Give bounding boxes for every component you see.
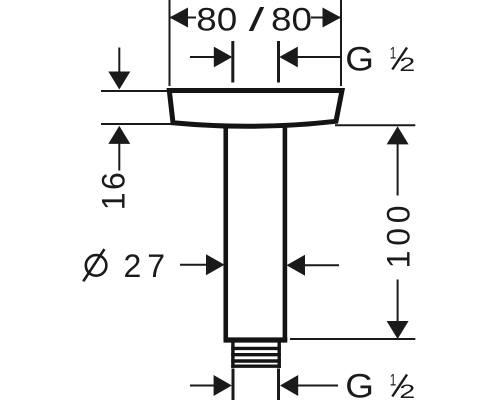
svg-text:100: 100 (380, 201, 416, 269)
dimension line left stub 80/80 (170, 17, 197, 19)
extension line left of 80/80 dimension (169, 0, 171, 86)
diameter label Ø 27 (83, 249, 106, 281)
ceiling reference line upper left (101, 90, 170, 92)
svg-text:1: 1 (390, 371, 397, 390)
pipe wall right (283, 127, 288, 341)
escutcheon plate outline (169, 91, 342, 127)
leader line left (top G 1/2) (190, 56, 215, 58)
svg-text:80: 80 (271, 2, 312, 38)
thread ridge line 1 (231, 347, 281, 350)
arrowhead pointing left (top G 1/2) (279, 47, 298, 68)
thread label top G 1/2 (345, 41, 415, 79)
pipe wall left (223, 127, 228, 341)
thread extension tick right (top G 1/2) (277, 41, 280, 83)
thread ridge line 2 (231, 353, 281, 356)
svg-text:2: 2 (399, 55, 415, 76)
extension line top of 100 dimension (335, 124, 415, 126)
100 dimension arrowhead pointing down (387, 321, 409, 339)
arrowhead pointing right (bottom G 1/2) (214, 375, 232, 396)
extension line right of 80/80 dimension (340, 0, 342, 86)
arrowhead pointing left (bottom G 1/2) (280, 375, 298, 396)
thread block bottom border (231, 365, 281, 368)
arrowhead right 80/80 (323, 8, 342, 28)
svg-text:80: 80 (196, 2, 237, 38)
arrowhead left 80/80 (170, 8, 189, 28)
svg-text:27: 27 (124, 248, 172, 284)
16 dimension lower line (118, 144, 120, 171)
leader line right (Ø 27) (305, 264, 339, 266)
leader line left (Ø 27) (180, 264, 209, 266)
svg-text:G: G (345, 368, 374, 400)
bottom thread extension tick left (232, 369, 235, 400)
ceiling reference line lower left (101, 123, 174, 125)
16 dimension upper line (118, 48, 120, 72)
dimension line right stub 80/80 (311, 17, 341, 19)
leader line right (top G 1/2) (297, 56, 341, 58)
svg-text:G: G (345, 41, 374, 79)
leader line left (bottom G 1/2) (190, 385, 215, 387)
thread block right border (278, 342, 281, 368)
bottom thread extension tick right (277, 369, 280, 400)
svg-text:16: 16 (96, 170, 132, 211)
svg-text:1: 1 (390, 44, 397, 63)
arrowhead pointing left at pipe right wall (287, 255, 306, 276)
16 dimension arrowhead pointing up (108, 126, 130, 144)
100 dimension arrowhead pointing up (387, 126, 409, 144)
thread block left border (231, 342, 234, 368)
arrowhead pointing right at pipe left wall (206, 254, 225, 275)
svg-text:/: / (249, 2, 265, 38)
thread label bottom G 1/2 (345, 368, 415, 400)
pipe bottom cap (224, 337, 288, 342)
svg-text:2: 2 (399, 382, 415, 400)
thread extension tick left (top G 1/2) (231, 41, 234, 83)
leader line right (bottom G 1/2) (298, 385, 338, 387)
extension line bottom of 100 dimension (290, 338, 415, 340)
100 dimension upper line (397, 144, 399, 196)
arrowhead pointing right (top G 1/2) (214, 47, 233, 68)
thread ridge line 3 (231, 359, 281, 362)
100 dimension lower line (397, 280, 399, 322)
16 dimension arrowhead pointing down (108, 72, 130, 90)
